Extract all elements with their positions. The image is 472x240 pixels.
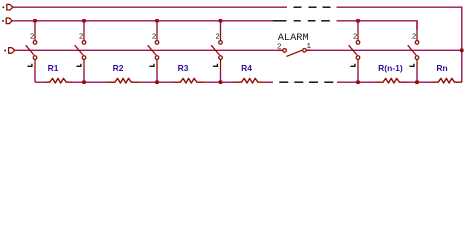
terminal port P1 (top left) — [7, 4, 13, 10]
wire switch S1 to resistor chain — [34, 71, 36, 83]
resistor R4 — [234, 78, 266, 83]
svg-text:2: 2 — [152, 33, 157, 41]
switch ALARM — [278, 49, 311, 57]
wire rail to switch S6 — [416, 21, 418, 30]
wire switch S2 to resistor chain — [83, 71, 85, 83]
wire rail to switch S1 — [34, 21, 36, 30]
switch S5 — [349, 30, 360, 71]
svg-text:2: 2 — [353, 33, 358, 41]
switch S3 — [148, 30, 159, 71]
svg-text:R(n-1): R(n-1) — [378, 63, 403, 73]
continuation dashes top rail — [294, 6, 331, 8]
wire switch S3 to resistor chain — [156, 71, 158, 83]
switch S4 — [211, 30, 222, 71]
wire continuation to R(n-1) — [337, 81, 375, 83]
terminal port P2 (second left) — [6, 18, 12, 24]
origin dot P1 — [3, 7, 5, 9]
wire rail to switch S5 — [357, 21, 359, 30]
wire R2 to R3 — [140, 81, 172, 83]
switch S1 — [26, 30, 37, 71]
junction on upper rail at switch S1 — [33, 19, 37, 23]
wire R3 to R4 — [205, 81, 233, 83]
junction on resistor chain at S3 — [155, 80, 159, 84]
wire chain start (S1 drop corner to R1) — [35, 81, 44, 83]
pin number 1 of S5 — [350, 64, 355, 67]
junction on upper rail at switch S3 — [155, 19, 159, 23]
pin number 1 of S4 — [213, 64, 218, 67]
svg-text:2: 2 — [215, 33, 220, 41]
wire rail to switch S2 — [83, 21, 85, 30]
resistor R(n-1) — [375, 78, 407, 83]
continuation dashes second rail — [273, 20, 330, 22]
svg-text:Rn: Rn — [436, 63, 447, 73]
wire R1 to R2 — [72, 81, 106, 83]
junction on upper rail at switch S4 — [219, 19, 223, 23]
svg-text:2: 2 — [277, 43, 282, 51]
junction alarm line / right edge wire — [460, 49, 464, 53]
svg-text:2: 2 — [412, 33, 417, 41]
junction on resistor chain at S5 — [356, 80, 360, 84]
wire switch S6 to resistor chain — [416, 71, 418, 83]
pin number 1 of S2 — [76, 64, 81, 67]
continuation dashes chain — [279, 81, 333, 83]
pin number 1 of S3 — [149, 64, 154, 67]
svg-text:R4: R4 — [241, 63, 252, 73]
svg-text:2: 2 — [79, 33, 84, 41]
resistor R3 — [172, 78, 205, 83]
wire second rail (left solid part) — [12, 20, 273, 22]
svg-text:2: 2 — [30, 33, 35, 41]
junction on upper rail at switch S2 — [82, 19, 86, 23]
terminal port P3 (middle left) — [9, 48, 15, 54]
switch S6 — [408, 30, 419, 71]
wire rail to switch S3 — [156, 21, 158, 30]
resistor Rn — [431, 78, 462, 83]
junction on resistor chain at S6 — [415, 80, 419, 84]
wire middle alarm line (left of ALARM switch) — [15, 49, 283, 51]
junction on resistor chain at S2 — [82, 80, 86, 84]
svg-text:R1: R1 — [48, 63, 59, 73]
junction on upper rail at switch S5 — [356, 19, 360, 23]
svg-text:1: 1 — [307, 43, 312, 51]
resistor R1 — [44, 78, 73, 83]
wire switch S4 to resistor chain — [220, 71, 222, 83]
switch S2 — [75, 30, 86, 71]
pin number 1 of S1 — [27, 64, 32, 67]
wire second rail (right solid part) down to last switch — [337, 21, 418, 30]
svg-text:R2: R2 — [113, 63, 124, 73]
pin number 1 of S6 — [409, 64, 414, 67]
junction on resistor chain at S4 — [219, 80, 223, 84]
wire middle alarm line (right of ALARM switch) — [307, 49, 462, 51]
svg-text:R3: R3 — [178, 63, 189, 73]
wire top rail (left solid part) — [13, 6, 287, 8]
resistor R2 — [107, 78, 140, 83]
wire R4 to continuation — [266, 81, 273, 83]
wire rail to switch S4 — [220, 21, 222, 30]
wire switch S5 to resistor chain — [357, 71, 359, 83]
wire R(n-1) to Rn — [407, 81, 431, 83]
origin dot P2 — [2, 20, 4, 22]
wire top rail (right solid part) with right-edge drop — [337, 7, 462, 82]
svg-text:ALARM: ALARM — [278, 32, 309, 44]
origin dot P3 — [4, 50, 6, 52]
